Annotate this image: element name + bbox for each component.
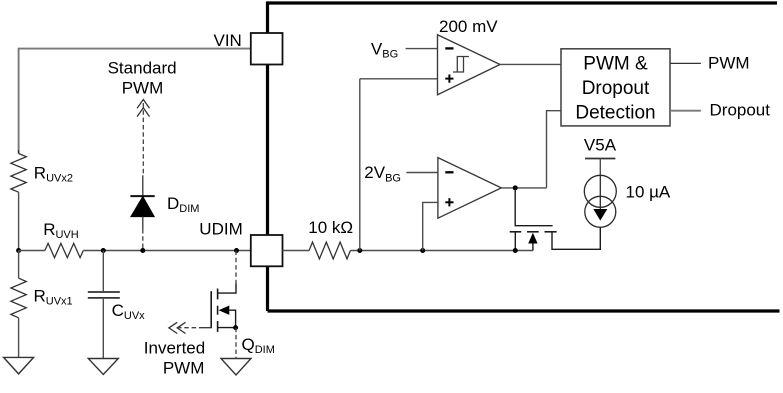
wire dashed QDIM source to ground (235, 328, 237, 359)
resistor RUVx1 (11, 278, 26, 318)
svg-text:Inverted: Inverted (144, 339, 205, 358)
diode DDIM anode lead (142, 217, 144, 229)
svg-text:PWM &: PWM & (583, 54, 648, 75)
op-amp U1 comparator (438, 35, 501, 95)
capacitor CUVx lead top (102, 251, 104, 292)
wire dashed UDIM to QDIM drain (235, 251, 237, 284)
svg-text:Dropout: Dropout (710, 101, 771, 120)
current source I1 arrow (599, 175, 601, 211)
svg-text:Detection: Detection (575, 103, 655, 124)
wire PWM output (670, 62, 701, 64)
node left (junction dot) (16, 248, 21, 253)
diode DDIM cathode lead (142, 175, 144, 196)
resistor RUVx2 (11, 154, 26, 193)
wire RUVx1 to ground (18, 318, 20, 358)
wire Dropout output (670, 110, 701, 112)
capacitor CUVx plates (88, 291, 120, 293)
arrow Inverted PWM (double chevron left) (169, 322, 177, 333)
wire UDIM row left (19, 250, 45, 252)
svg-text:PWM: PWM (122, 79, 164, 98)
node CUVx top (junction dot) (101, 248, 106, 253)
wire left rail middle (18, 192, 20, 251)
capacitor CUVx lead bottom (102, 299, 104, 359)
svg-text:V5A: V5A (584, 136, 617, 155)
wire comp2 plus feed (423, 202, 438, 250)
wire U2 output (501, 187, 546, 189)
wire V5A to current source (599, 159, 601, 177)
svg-text:PWM: PWM (708, 54, 750, 73)
diode DDIM cathode bar (130, 195, 154, 197)
wire main row right of resistor (350, 250, 533, 252)
pin UDIM box (251, 235, 283, 266)
U1 minus sign (445, 47, 453, 49)
node QDIM source (junction dot) (233, 325, 238, 330)
wire left rail lower (18, 251, 20, 279)
node comp1 plus feed (junction dot) (357, 248, 362, 253)
diode DDIM triangle (131, 197, 154, 217)
wire 2VBG to comp2 minus (406, 172, 438, 174)
wire U1 output to PWM box (500, 63, 561, 65)
wire M1 drain to current source (552, 227, 600, 249)
U1 plus sign (445, 78, 453, 80)
transistor QDIM channel segments (217, 289, 219, 300)
wire comp1 plus input (360, 78, 438, 80)
ground G1 (4, 357, 34, 374)
wire VBG to comp1 minus (406, 48, 438, 50)
svg-text:10 µA: 10 µA (626, 182, 671, 201)
svg-text:PWM: PWM (163, 358, 205, 377)
transistor M1 source lead (514, 232, 516, 251)
node M1 source (junction dot) (513, 248, 518, 253)
wire VIN row (left rail to VIN pin) (19, 48, 251, 50)
transistor QDIM drain lead (218, 284, 236, 294)
transistor QDIM source lead (218, 327, 236, 329)
wire dashed QDIM gate lead (177, 327, 199, 329)
svg-text:VIN: VIN (214, 31, 242, 50)
svg-text:200 mV: 200 mV (439, 17, 498, 36)
wire left rail upper (18, 48, 20, 154)
U1 hysteresis symbol (453, 57, 469, 73)
node DDIM anode (junction dot) (140, 248, 145, 253)
transistor QDIM body arrow (219, 306, 230, 315)
U2 plus sign (445, 201, 453, 203)
resistor 10k (309, 242, 350, 259)
transistor QDIM gate bar (210, 291, 212, 328)
current source I1 circles (584, 175, 616, 207)
transistor QDIM body lead (229, 310, 235, 327)
arrow Standard PWM (double chevron up) (137, 100, 149, 109)
wire M1 gate lead (515, 188, 552, 226)
transistor M1 body lead (532, 244, 534, 251)
node comp2 plus feed (junction dot) (420, 248, 425, 253)
wire U2 output to PWM box (547, 111, 562, 188)
resistor RUVH (45, 243, 83, 257)
node U2 output (junction dot) (513, 185, 518, 190)
node UDIM row QDIM branch (junction dot) (234, 248, 239, 253)
svg-text:10 kΩ: 10 kΩ (308, 218, 353, 237)
op-amp U2 comparator (438, 158, 501, 219)
transistor M1 body arrow (528, 233, 537, 244)
wire dashed Standard PWM (142, 103, 144, 175)
wire UDIM pin to resistor (283, 250, 310, 252)
transistor M1 channel segments (510, 231, 522, 233)
svg-text:UDIM: UDIM (199, 220, 242, 239)
wire UDIM row middle (83, 250, 251, 252)
U2 minus sign (445, 171, 453, 173)
wire comp1 plus feed vertical (359, 79, 361, 251)
pin VIN box (251, 33, 283, 65)
ground G3 (221, 359, 251, 376)
ground G2 (88, 359, 118, 375)
IC boundary (open right side) (268, 3, 780, 311)
block PWM & Dropout Detection (561, 49, 670, 126)
svg-text:Standard: Standard (108, 59, 177, 78)
svg-text:Dropout: Dropout (582, 78, 650, 99)
supply V5A bar (585, 158, 615, 160)
